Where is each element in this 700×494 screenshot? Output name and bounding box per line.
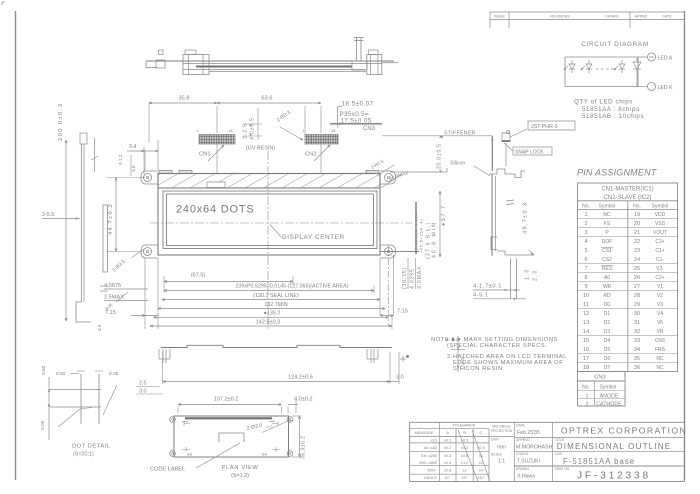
section left bracket bbox=[183, 55, 209, 75]
dimension 17.5 line bbox=[330, 123, 382, 125]
second strip marks bbox=[100, 285, 108, 287]
second strip bar bbox=[103, 205, 108, 272]
svg-text:LED A: LED A bbox=[658, 55, 673, 61]
left strip body bbox=[81, 144, 83, 302]
svg-text:V3: V3 bbox=[657, 302, 663, 308]
svg-text:15: 15 bbox=[583, 338, 589, 344]
svg-text:1.0: 1.0 bbox=[525, 268, 531, 280]
front view hatched bezel bbox=[158, 174, 380, 189]
svg-text:±3°: ±3° bbox=[462, 476, 468, 480]
profile bottom bracket bbox=[497, 251, 534, 255]
svg-text:3.0: 3.0 bbox=[139, 389, 147, 395]
snap lock label bbox=[513, 147, 552, 155]
svg-text:(74.9): (74.9) bbox=[460, 356, 466, 369]
rear view top edge bbox=[161, 345, 392, 347]
svg-text:CS2: CS2 bbox=[602, 257, 612, 263]
front view vertical centerline bbox=[267, 151, 269, 331]
svg-text:3.5: 3.5 bbox=[131, 165, 136, 172]
svg-text:3.0: 3.0 bbox=[396, 375, 404, 381]
svg-text:6: 6 bbox=[584, 257, 587, 263]
svg-text:V5: V5 bbox=[657, 320, 663, 326]
svg-text:240x64 DOTS: 240x64 DOTS bbox=[176, 204, 255, 216]
svg-text:D4: D4 bbox=[604, 338, 611, 344]
svg-text:20.0±0.5: 20.0±0.5 bbox=[437, 143, 443, 169]
svg-text:±2: ±2 bbox=[479, 461, 483, 465]
svg-text:±1°: ±1° bbox=[445, 476, 451, 480]
svg-text:±0.6: ±0.6 bbox=[461, 454, 468, 458]
svg-text:44.7±0.2: 44.7±0.2 bbox=[108, 203, 114, 235]
svg-text:22: 22 bbox=[634, 239, 640, 245]
LED D4 output diode bbox=[633, 62, 641, 69]
svg-text:(67.5): (67.5) bbox=[191, 272, 206, 278]
svg-text:P35x0.5=: P35x0.5= bbox=[340, 111, 370, 118]
svg-text:CN1-MASTER(IC1): CN1-MASTER(IC1) bbox=[601, 187, 653, 193]
svg-text:4-1.7±0.1: 4-1.7±0.1 bbox=[473, 284, 502, 290]
profile mid hook bbox=[491, 237, 497, 250]
svg-text:7: 7 bbox=[584, 266, 587, 272]
svg-text:D0: D0 bbox=[604, 302, 611, 308]
front view body outline bbox=[158, 174, 380, 256]
profile top bracket bbox=[489, 169, 525, 178]
svg-text:DATE: DATE bbox=[662, 14, 672, 18]
mounting ear bottom-right bbox=[380, 245, 396, 258]
svg-text:49.7±0.3: 49.7±0.3 bbox=[523, 202, 529, 234]
LED dashed continuation wire bbox=[596, 68, 616, 70]
svg-text:124.2±0.5: 124.2±0.5 bbox=[288, 375, 313, 381]
svg-text:CATHODE: CATHODE bbox=[596, 401, 622, 407]
svg-text:200.0±0.3: 200.0±0.3 bbox=[58, 103, 64, 141]
svg-text:CN1: CN1 bbox=[199, 152, 211, 158]
svg-text:21: 21 bbox=[634, 230, 640, 236]
svg-text:OS6: OS6 bbox=[655, 338, 665, 344]
svg-text:63.6: 63.6 bbox=[262, 96, 273, 102]
svg-text:107.2±0.2: 107.2±0.2 bbox=[214, 397, 239, 403]
title block tolerance grid bbox=[438, 422, 440, 481]
LED chip symbol bbox=[619, 64, 625, 69]
dimension 40.8 line bbox=[439, 191, 441, 257]
svg-text:0.05: 0.05 bbox=[40, 420, 46, 430]
svg-text:16: 16 bbox=[583, 347, 589, 353]
svg-text:.≤16: .≤16 bbox=[430, 438, 437, 442]
svg-text:19: 19 bbox=[634, 212, 640, 218]
svg-text:CN3: CN3 bbox=[594, 375, 606, 381]
svg-text:4.0±0.5: 4.0±0.5 bbox=[250, 117, 256, 140]
svg-text:CN2: CN2 bbox=[305, 152, 317, 158]
svg-text:10: 10 bbox=[583, 293, 589, 299]
svg-text:18: 18 bbox=[228, 128, 233, 133]
pin table outer box bbox=[578, 183, 678, 372]
svg-text:30: 30 bbox=[634, 311, 640, 317]
svg-text:±1.2: ±1.2 bbox=[461, 461, 468, 465]
svg-text:2-2.5: 2-2.5 bbox=[243, 123, 249, 139]
rear view left feet bbox=[159, 349, 170, 363]
svg-text:APPRD: APPRD bbox=[635, 14, 648, 18]
bezel top tabs bbox=[159, 170, 172, 173]
svg-text:3: 3 bbox=[584, 230, 587, 236]
svg-text:VR: VR bbox=[657, 329, 664, 335]
svg-text:NC: NC bbox=[603, 212, 611, 218]
svg-text:4-5.1: 4-5.1 bbox=[473, 293, 489, 299]
svg-text:VOUT: VOUT bbox=[653, 230, 667, 236]
svg-text:33: 33 bbox=[634, 338, 640, 344]
svg-text:18.5±0.07: 18.5±0.07 bbox=[342, 101, 374, 108]
svg-text:2: 2 bbox=[584, 221, 587, 227]
svg-text:4-1.2: 4-1.2 bbox=[118, 154, 123, 165]
connector CN2 block bbox=[305, 135, 338, 145]
svg-text:No.: No. bbox=[582, 204, 590, 210]
svg-text:NC: NC bbox=[656, 356, 664, 362]
svg-text:●57.7: ●57.7 bbox=[441, 204, 447, 226]
svg-text:51851AA : 8chips: 51851AA : 8chips bbox=[582, 106, 640, 113]
dimension 35.8 / 63.6 bbox=[148, 103, 150, 143]
LED chip symbol bbox=[569, 64, 575, 69]
svg-text:11: 11 bbox=[583, 302, 589, 308]
svg-text:±0.5: ±0.5 bbox=[444, 461, 451, 465]
svg-text:±0.2: ±0.2 bbox=[444, 446, 451, 450]
LED chip symbol bbox=[586, 64, 592, 69]
svg-text:JF-312338: JF-312338 bbox=[577, 471, 651, 482]
svg-text:17: 17 bbox=[583, 356, 589, 362]
svg-text:Symbol: Symbol bbox=[600, 385, 617, 391]
svg-text:35: 35 bbox=[634, 356, 640, 362]
mounting ear top-left bbox=[141, 171, 158, 184]
svg-text:35.8: 35.8 bbox=[179, 96, 190, 102]
svg-text:7.15: 7.15 bbox=[397, 309, 408, 315]
LED cathode terminal bbox=[638, 86, 647, 88]
plan view ear circles bbox=[170, 417, 176, 423]
svg-text:CS1: CS1 bbox=[602, 248, 612, 254]
svg-text:V1: V1 bbox=[657, 284, 663, 290]
svg-text:132.7MIN: 132.7MIN bbox=[264, 302, 287, 308]
svg-text:UNIT: UNIT bbox=[491, 438, 499, 442]
stiffener extension line bbox=[382, 135, 492, 137]
svg-text:CN3: CN3 bbox=[363, 126, 376, 132]
svg-text:Symbol: Symbol bbox=[599, 204, 616, 210]
svg-text:0.50: 0.50 bbox=[56, 371, 66, 377]
svg-text:32: 32 bbox=[634, 329, 640, 335]
svg-text:3.5: 3.5 bbox=[97, 324, 102, 331]
svg-text:DOT DETAIL: DOT DETAIL bbox=[72, 444, 111, 450]
section left end cap bbox=[156, 60, 165, 68]
svg-text:D6: D6 bbox=[604, 356, 611, 362]
svg-text:No.: No. bbox=[633, 204, 641, 210]
dimension 200 line bbox=[65, 140, 67, 321]
svg-text:51851AB : 10chips: 51851AB : 10chips bbox=[582, 113, 644, 120]
svg-text:V4: V4 bbox=[657, 311, 663, 317]
svg-text:D5: D5 bbox=[604, 347, 611, 353]
JST connector label bbox=[528, 121, 575, 130]
svg-text:D2: D2 bbox=[604, 320, 611, 326]
ear centerline bottom-right bbox=[388, 245, 390, 326]
svg-text:+35.6+15A. A): +35.6+15A. A) bbox=[420, 218, 424, 253]
svg-text:18: 18 bbox=[583, 365, 589, 371]
svg-text:40.8 MIN: 40.8 MIN bbox=[432, 221, 438, 258]
svg-text:●135.2: ●135.2 bbox=[264, 311, 281, 317]
svg-text:DWG NO: DWG NO bbox=[555, 467, 570, 471]
title block right grid bbox=[552, 422, 554, 481]
svg-text:PLAN VIEW: PLAN VIEW bbox=[222, 465, 259, 471]
section right bracket bbox=[367, 55, 382, 75]
svg-text:MEASURE: MEASURE bbox=[415, 431, 434, 435]
svg-text:34: 34 bbox=[634, 347, 640, 353]
svg-text:25: 25 bbox=[634, 266, 640, 272]
profile pins bbox=[510, 259, 512, 299]
svg-text:ANGLE: ANGLE bbox=[424, 476, 437, 480]
revisions strip box bbox=[490, 11, 685, 13]
svg-text:4.0295: 4.0295 bbox=[410, 268, 416, 289]
dot detail leaders bbox=[103, 385, 117, 415]
svg-text:±4: ±4 bbox=[479, 469, 483, 473]
svg-text:18: 18 bbox=[331, 128, 336, 133]
svg-text:3.4: 3.4 bbox=[129, 144, 137, 150]
svg-text:1: 1 bbox=[584, 212, 587, 218]
left strip tick line bbox=[94, 138, 96, 172]
bezel window notch bbox=[207, 182, 225, 188]
plan view center notch bbox=[219, 433, 244, 442]
LED anode terminal bbox=[638, 56, 647, 58]
svg-text:OPTREX CORPORATION: OPTREX CORPORATION bbox=[561, 426, 687, 436]
svg-text:C2+: C2+ bbox=[655, 275, 664, 281]
front view display area bbox=[167, 194, 374, 246]
mounting ear bottom-left bbox=[141, 245, 158, 258]
svg-text:27: 27 bbox=[634, 284, 640, 290]
svg-text:RD: RD bbox=[603, 293, 611, 299]
svg-text:(S=20:1): (S=20:1) bbox=[73, 452, 94, 458]
svg-text:5: 5 bbox=[584, 248, 587, 254]
svg-text:31: 31 bbox=[634, 320, 640, 326]
svg-text:Symbol: Symbol bbox=[652, 204, 669, 210]
svg-text:(UV RESIN): (UV RESIN) bbox=[246, 146, 275, 152]
svg-text:M.MOROHASH: M.MOROHASH bbox=[516, 444, 553, 450]
svg-text:Feb.25'85: Feb.25'85 bbox=[517, 430, 540, 436]
left strip foot bbox=[76, 302, 91, 322]
svg-text:2-5.5: 2-5.5 bbox=[42, 212, 54, 218]
svg-text:WR: WR bbox=[603, 284, 612, 290]
profile small connector bbox=[502, 133, 510, 142]
svg-text:DRAWN: DRAWN bbox=[605, 14, 619, 18]
svg-text:±0.8: ±0.8 bbox=[444, 469, 451, 473]
extension lines below front view bbox=[144, 258, 146, 329]
front view horizontal centerline bbox=[150, 222, 412, 224]
svg-text:SNAP LOCK: SNAP LOCK bbox=[515, 149, 544, 155]
svg-text:±0.1: ±0.1 bbox=[444, 438, 451, 442]
svg-text:V2: V2 bbox=[657, 293, 663, 299]
svg-text:C1-: C1- bbox=[656, 257, 664, 263]
svg-text:23: 23 bbox=[634, 248, 640, 254]
svg-text:24: 24 bbox=[634, 257, 640, 263]
svg-text:DISPLAY CENTER: DISPLAY CENTER bbox=[282, 234, 345, 241]
svg-text:2: 2 bbox=[456, 337, 459, 342]
svg-text:142.5±0.3: 142.5±0.3 bbox=[256, 319, 281, 325]
svg-text:mm: mm bbox=[497, 445, 506, 451]
section left stub lower line bbox=[146, 67, 157, 69]
svg-text:VDD: VDD bbox=[655, 212, 666, 218]
svg-text:9: 9 bbox=[584, 284, 587, 290]
svg-text:4-: 4- bbox=[446, 337, 451, 342]
svg-text:C1+: C1+ bbox=[655, 248, 664, 254]
svg-text:D1: D1 bbox=[604, 311, 611, 317]
svg-text:CN2-SLAVE (IC2): CN2-SLAVE (IC2) bbox=[604, 195, 652, 201]
svg-text:±0.3: ±0.3 bbox=[444, 454, 451, 458]
left strip clip bbox=[80, 133, 87, 144]
lower extension line bbox=[390, 171, 447, 173]
circuit diagram box wires bbox=[565, 56, 638, 58]
svg-text:F-51851AA base: F-51851AA base bbox=[563, 457, 635, 466]
section right stub bbox=[382, 62, 398, 64]
svg-text:ISSUE: ISSUE bbox=[494, 14, 505, 18]
CN3 pins on section view bbox=[356, 37, 358, 61]
svg-text:63<,≤250: 63<,≤250 bbox=[421, 454, 437, 458]
svg-text:QTY of LED chips: QTY of LED chips bbox=[574, 99, 633, 106]
svg-text:CHCKD: CHCKD bbox=[516, 452, 529, 456]
svg-text:DIMENSIONAL OUTLINE: DIMENSIONAL OUTLINE bbox=[557, 442, 672, 451]
svg-text:±2: ±2 bbox=[462, 469, 466, 473]
svg-text:4: 4 bbox=[584, 239, 587, 245]
svg-text:0.50: 0.50 bbox=[41, 365, 47, 375]
svg-text:14: 14 bbox=[583, 329, 589, 335]
svg-text:CIRCUIT DIAGRAM: CIRCUIT DIAGRAM bbox=[581, 41, 649, 48]
svg-text:C: C bbox=[480, 431, 483, 435]
svg-text:2.0: 2.0 bbox=[533, 269, 539, 281]
svg-text:A0: A0 bbox=[604, 275, 610, 281]
svg-text:8: 8 bbox=[584, 275, 587, 281]
CN3 table bbox=[578, 372, 626, 407]
svg-text:3.0MAX: 3.0MAX bbox=[417, 266, 423, 289]
svg-text:D3: D3 bbox=[604, 329, 611, 335]
svg-text:13: 13 bbox=[583, 320, 589, 326]
svg-text:T.SUZUKI: T.SUZUKI bbox=[517, 458, 540, 464]
dot detail grid bbox=[49, 389, 101, 391]
svg-text:16<,≤63: 16<,≤63 bbox=[423, 446, 437, 450]
svg-text:TOLERANCE: TOLERANCE bbox=[452, 424, 476, 428]
svg-text:JST:PHR-9: JST:PHR-9 bbox=[531, 124, 558, 130]
svg-text:FS: FS bbox=[604, 221, 611, 227]
pin table center divider bbox=[627, 201, 629, 372]
svg-text:DATE: DATE bbox=[516, 423, 526, 427]
svg-text:1:1: 1:1 bbox=[498, 459, 506, 465]
svg-text:X.Hawa: X.Hawa bbox=[517, 474, 535, 480]
plan view outline bbox=[174, 416, 289, 457]
profile equals mark bbox=[506, 200, 514, 201]
svg-text:20: 20 bbox=[634, 221, 640, 227]
svg-text:29: 29 bbox=[634, 302, 640, 308]
svg-text:SCALE: SCALE bbox=[491, 452, 503, 456]
svg-text:D7: D7 bbox=[604, 365, 611, 371]
plan view bottom hooks bbox=[188, 453, 191, 457]
svg-text:12: 12 bbox=[583, 311, 589, 317]
svg-text:PROJECTION: PROJECTION bbox=[491, 429, 513, 433]
ear ext line upper bbox=[144, 150, 146, 171]
connector CN1 block bbox=[199, 135, 235, 145]
svg-text:26: 26 bbox=[634, 275, 640, 281]
svg-text:No.: No. bbox=[582, 385, 590, 391]
mounting ear top-right bbox=[380, 171, 396, 184]
svg-text:Silicon: Silicon bbox=[450, 161, 465, 167]
plan view corner marks bbox=[184, 421, 190, 426]
svg-text:2: 2 bbox=[586, 401, 589, 407]
svg-text:250<,≤500: 250<,≤500 bbox=[419, 461, 437, 465]
profile body bbox=[491, 174, 493, 256]
sheet corner tick bbox=[2, 1, 5, 3]
section view top line bbox=[146, 60, 394, 62]
svg-text:CODE LABEL: CODE LABEL bbox=[150, 467, 185, 473]
left border line bbox=[15, 11, 17, 480]
svg-text:500<.: 500<. bbox=[427, 469, 437, 473]
svg-text:239xP0.5295=0.5145 (127.065)(A: 239xP0.5295=0.5145 (127.065)(ACTIVE AREA… bbox=[236, 284, 349, 290]
svg-text:(30.35): (30.35) bbox=[402, 267, 408, 289]
dot detail dim verticals bbox=[48, 377, 50, 440]
profile top wires bbox=[492, 140, 494, 171]
svg-text:V2-: V2- bbox=[656, 266, 664, 272]
right border line bbox=[684, 11, 686, 480]
svg-text:(S=1:2): (S=1:2) bbox=[231, 473, 249, 479]
svg-text:NC: NC bbox=[656, 365, 664, 371]
svg-text:REVISIONS: REVISIONS bbox=[550, 14, 570, 18]
JST wire bbox=[491, 136, 493, 171]
front view inner frame bbox=[163, 191, 377, 249]
title block outer box bbox=[410, 422, 685, 481]
svg-text:36.3±0.2: 36.3±0.2 bbox=[301, 436, 307, 459]
tolerance diagonals bbox=[458, 430, 478, 482]
svg-text:±10°: ±10° bbox=[477, 476, 485, 480]
svg-text:CDX: CDX bbox=[555, 452, 563, 456]
svg-text:DOF: DOF bbox=[602, 239, 613, 245]
svg-text:LED K: LED K bbox=[658, 85, 674, 91]
plan view connector band bbox=[185, 417, 272, 419]
rear right plus mark bbox=[402, 356, 404, 362]
projection cell bbox=[513, 422, 515, 481]
svg-text:FRS: FRS bbox=[655, 347, 666, 353]
svg-text:4.0±0.2: 4.0±0.2 bbox=[294, 397, 313, 403]
svg-text:36: 36 bbox=[634, 365, 640, 371]
svg-text:APPRVD: APPRVD bbox=[516, 438, 530, 442]
svg-text:DRAWN: DRAWN bbox=[516, 467, 529, 471]
svg-text:(130.2 SEAL LINE): (130.2 SEAL LINE) bbox=[253, 293, 299, 299]
svg-text:(SPECIAL CHARACTER SPECS.: (SPECIAL CHARACTER SPECS. bbox=[447, 343, 548, 349]
svg-text:0.05: 0.05 bbox=[109, 371, 119, 377]
svg-text:PIN ASSIGNMENT: PIN ASSIGNMENT bbox=[577, 168, 658, 178]
svg-text:C3+: C3+ bbox=[655, 239, 664, 245]
svg-text:28: 28 bbox=[634, 293, 640, 299]
svg-text:VSS: VSS bbox=[655, 221, 666, 227]
section view glass layers bbox=[183, 63, 382, 65]
rear view right feet bbox=[367, 349, 378, 363]
svg-text:RES: RES bbox=[602, 266, 613, 272]
svg-text:2.5: 2.5 bbox=[139, 381, 147, 387]
